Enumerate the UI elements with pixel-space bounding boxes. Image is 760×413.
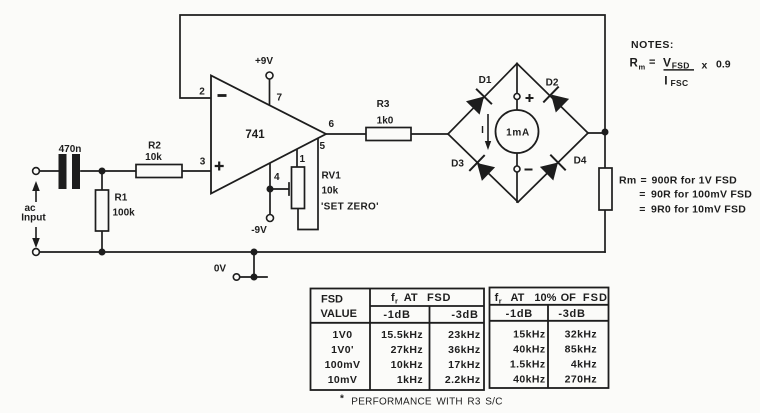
svg-text:R3: R3: [377, 99, 390, 110]
svg-text:*: *: [340, 394, 344, 405]
svg-text:5: 5: [320, 141, 326, 152]
svg-text:100k: 100k: [113, 208, 136, 219]
svg-text:3: 3: [200, 157, 206, 168]
terminal -9V: [267, 215, 274, 222]
wire bridge right vertex to node: [588, 132, 605, 134]
svg-text:27kHz: 27kHz: [391, 344, 423, 356]
table left data column -3dB: [445, 329, 481, 386]
svg-text:R: R: [630, 58, 639, 70]
node junction output: [602, 129, 609, 136]
svg-text:AT: AT: [404, 292, 418, 304]
svg-text:r: r: [395, 297, 398, 306]
resistor R2: [136, 165, 182, 178]
resistor R3: [366, 128, 411, 141]
notes formula Rm = Vfsd/Ifsc x 0.9: [630, 56, 731, 88]
svg-text:6: 6: [329, 119, 335, 130]
wire R3 to bridge left vertex: [411, 133, 448, 135]
svg-text:D2: D2: [546, 78, 559, 89]
node junction R1 top: [99, 168, 106, 175]
terminal 0V: [233, 274, 239, 280]
wire pin1 to RV1 top: [296, 149, 298, 167]
wire R1 bottom to 0V rail: [101, 231, 103, 252]
diode D2: [543, 78, 569, 113]
svg-text:10mV: 10mV: [328, 374, 358, 386]
svg-text:-3dB: -3dB: [451, 309, 478, 321]
svg-text:+9V: +9V: [255, 56, 273, 67]
svg-text:10k: 10k: [145, 152, 162, 163]
svg-text:=90R for 100mV FSD: =90R for 100mV FSD: [639, 189, 752, 201]
wire 0V rail: [40, 251, 606, 253]
svg-text:10kHz: 10kHz: [391, 359, 423, 371]
svg-text:D4: D4: [574, 156, 587, 167]
table right data column -1dB: [510, 329, 546, 386]
svg-text:I: I: [664, 74, 667, 88]
diode D1: [466, 75, 492, 115]
wire node to R1 top: [101, 171, 103, 190]
svg-text:0V: 0V: [214, 263, 227, 274]
svg-text:4kHz: 4kHz: [571, 359, 597, 371]
svg-text:NOTES:: NOTES:: [631, 39, 674, 51]
svg-text:-9V: -9V: [251, 225, 267, 236]
op-amp non-inverting input marker: [215, 162, 224, 171]
wire 0V stub: [240, 252, 267, 277]
wire node to Rm: [604, 132, 606, 168]
meter minus terminal: [514, 166, 520, 172]
svg-text:1V0': 1V0': [331, 344, 354, 356]
svg-text:r: r: [499, 297, 502, 306]
wire pin7 to +9V: [269, 79, 271, 104]
wire Rm bottom to 0V rail: [604, 210, 606, 252]
svg-text:741: 741: [245, 129, 265, 141]
node junction R1 bottom: [99, 249, 106, 256]
svg-text:RV1: RV1: [322, 171, 342, 182]
svg-text:FSC: FSC: [671, 78, 689, 88]
node junction pin4 wiper: [267, 186, 274, 193]
capacitor C 470n plate left: [59, 154, 67, 189]
svg-text:R2: R2: [148, 141, 161, 152]
svg-text:Rm=900R for 1V FSD: Rm=900R for 1V FSD: [619, 174, 737, 186]
svg-text:AT: AT: [511, 292, 525, 304]
svg-text:40kHz: 40kHz: [513, 374, 545, 386]
diode D4: [540, 155, 587, 181]
diode D3: [451, 155, 495, 181]
meter plus label: [526, 94, 534, 102]
svg-text:=9R0 for 10mV FSD: =9R0 for 10mV FSD: [639, 203, 746, 215]
svg-text:270Hz: 270Hz: [565, 374, 597, 386]
meter plus terminal: [514, 94, 520, 100]
wire bridge top vertex to meter plus terminal: [516, 64, 518, 111]
node junction 0V rail: [251, 249, 258, 256]
wire bridge top-right edge: [517, 64, 588, 134]
svg-text:-1dB: -1dB: [383, 309, 410, 321]
svg-text:15kHz: 15kHz: [513, 329, 545, 341]
wire bridge bottom-right edge: [518, 133, 588, 202]
svg-text:OF: OF: [561, 292, 577, 304]
svg-text:-3dB: -3dB: [558, 308, 585, 320]
terminal ac input top: [33, 168, 40, 175]
svg-text:I: I: [481, 125, 484, 136]
wire pin6 to R3: [326, 133, 366, 135]
svg-text:40kHz: 40kHz: [513, 344, 545, 356]
svg-text:1k0: 1k0: [377, 115, 394, 126]
resistor R1: [96, 190, 109, 231]
svg-text:1mA: 1mA: [506, 128, 530, 139]
svg-text:FSD: FSD: [583, 292, 608, 304]
svg-text:1.5kHz: 1.5kHz: [510, 359, 546, 371]
node junction 0V terminal: [251, 274, 258, 281]
svg-text:R1: R1: [115, 193, 128, 204]
current I arrow: [481, 114, 491, 150]
wire RV1 bottom to pin5: [298, 138, 318, 230]
svg-text:FSD: FSD: [427, 292, 451, 304]
svg-text:100mV: 100mV: [325, 359, 361, 371]
svg-text:1kHz: 1kHz: [397, 374, 423, 386]
svg-text:17kHz: 17kHz: [448, 359, 480, 371]
svg-text:1V0: 1V0: [333, 329, 353, 341]
svg-text:x: x: [702, 59, 708, 71]
table right data column -3dB: [565, 329, 597, 386]
svg-text:VALUE: VALUE: [321, 308, 357, 320]
wire bridge bottom-left edge: [448, 134, 518, 202]
wire feedback loop from pin2 to output node: [180, 15, 605, 132]
svg-text:1: 1: [300, 154, 306, 165]
svg-text:m: m: [639, 63, 646, 72]
svg-text:D1: D1: [479, 75, 492, 86]
svg-text:FSD: FSD: [672, 60, 690, 70]
terminal +9V: [266, 72, 273, 79]
wire pin4 to -9V: [269, 163, 271, 215]
terminal ac input bottom: [33, 249, 40, 256]
wire input to capacitor: [40, 170, 59, 172]
svg-text:10k: 10k: [322, 186, 339, 197]
svg-text:4: 4: [274, 172, 280, 183]
wire meter minus terminal to bridge bottom vertex: [516, 153, 518, 202]
svg-text:32kHz: 32kHz: [565, 329, 597, 341]
svg-text:15.5kHz: 15.5kHz: [381, 329, 423, 341]
svg-text:PERFORMANCE WITH R3 S/C: PERFORMANCE WITH R3 S/C: [351, 397, 502, 408]
table left data column -1dB: [381, 329, 423, 386]
svg-text:470n: 470n: [59, 144, 82, 155]
wire R2 to pin3: [182, 170, 211, 172]
capacitor C 470n plate right: [72, 154, 80, 189]
wire bridge top-left edge: [448, 64, 517, 135]
svg-text:-1dB: -1dB: [506, 308, 533, 320]
wire RV1 wiper to pin4 line: [270, 183, 289, 195]
svg-text:=: =: [649, 57, 655, 69]
svg-text:Input: Input: [21, 213, 46, 224]
svg-text:85kHz: 85kHz: [565, 344, 597, 356]
svg-text:36kHz: 36kHz: [448, 344, 480, 356]
svg-text:0.9: 0.9: [716, 58, 731, 70]
potentiometer RV1: [292, 167, 305, 209]
svg-text:7: 7: [277, 93, 283, 104]
svg-text:23kHz: 23kHz: [448, 329, 480, 341]
svg-text:2: 2: [199, 87, 205, 98]
op-amp U1 741: [211, 76, 326, 194]
svg-text:2.2kHz: 2.2kHz: [445, 374, 481, 386]
svg-text:'SET ZERO': 'SET ZERO': [321, 202, 379, 213]
svg-text:FSD: FSD: [321, 294, 343, 306]
svg-text:V: V: [663, 56, 671, 70]
table right block frame: [490, 288, 609, 389]
wire capacitor to R2: [81, 170, 136, 172]
svg-text:D3: D3: [451, 159, 464, 170]
meter minus label: [525, 169, 533, 171]
ac input arrow: [32, 181, 40, 248]
svg-text:10%: 10%: [534, 292, 556, 304]
table left data column fsd values: [325, 329, 361, 386]
resistor Rm: [599, 168, 612, 210]
table left block frame: [311, 289, 485, 391]
op-amp inverting input marker: [218, 94, 227, 97]
meter M1 1mA: [496, 110, 539, 153]
